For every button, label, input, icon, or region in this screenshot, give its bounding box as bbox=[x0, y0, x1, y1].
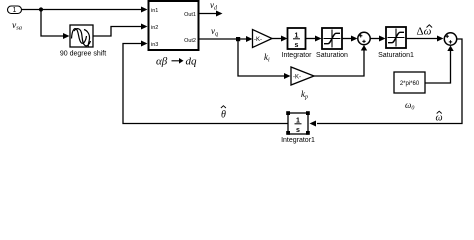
svg-text:2*pi*60: 2*pi*60 bbox=[400, 81, 420, 87]
svg-text:in1: in1 bbox=[151, 8, 158, 14]
svg-text:dq: dq bbox=[186, 56, 198, 68]
svg-text:Saturation1: Saturation1 bbox=[378, 52, 414, 59]
svg-text:s: s bbox=[296, 127, 300, 134]
svg-text:in3: in3 bbox=[151, 42, 158, 48]
svg-text:ω: ω bbox=[436, 113, 443, 124]
svg-text:in2: in2 bbox=[151, 25, 158, 31]
svg-text:-K-: -K- bbox=[293, 75, 301, 81]
svg-text:Integrator: Integrator bbox=[282, 52, 313, 59]
svg-text:θ: θ bbox=[221, 110, 226, 121]
svg-text:αβ: αβ bbox=[156, 56, 168, 68]
svg-text:-K-: -K- bbox=[254, 37, 262, 43]
svg-text:Integrator1: Integrator1 bbox=[281, 137, 315, 144]
svg-text:Saturation: Saturation bbox=[316, 52, 348, 59]
svg-text:s: s bbox=[295, 42, 299, 49]
svg-text:Out2: Out2 bbox=[184, 38, 196, 44]
svg-text:1: 1 bbox=[13, 7, 17, 14]
svg-text:Out1: Out1 bbox=[184, 12, 196, 18]
svg-text:Δω: Δω bbox=[417, 26, 432, 38]
svg-text:90 degree shift: 90 degree shift bbox=[60, 51, 106, 58]
